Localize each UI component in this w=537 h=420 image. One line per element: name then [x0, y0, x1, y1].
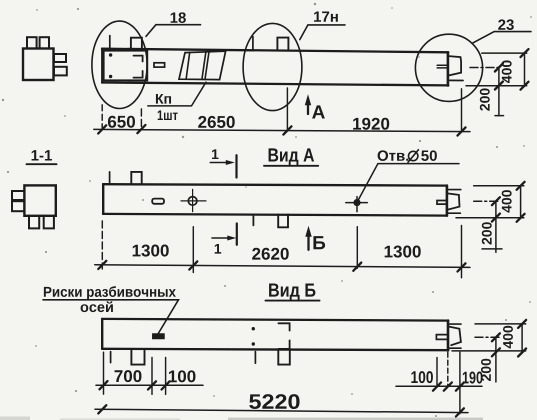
detail ellipse 18	[92, 21, 147, 108]
label 18	[146, 25, 201, 37]
tick below beam	[252, 216, 254, 225]
Otv label	[357, 164, 459, 202]
detail circle 23	[415, 34, 482, 101]
top dimension row: extensions	[102, 88, 461, 131]
dim text 2650	[198, 116, 235, 128]
detail ellipse 17n	[243, 23, 302, 110]
Vid A title	[269, 148, 315, 165]
dim 100 right	[411, 371, 433, 383]
tab above beam	[131, 172, 141, 184]
dim 700	[115, 370, 142, 382]
slot mark	[152, 199, 164, 204]
dim 1300 left	[133, 245, 169, 257]
section 1-1 view	[12, 185, 56, 228]
view arrow B	[307, 231, 309, 250]
main beam (plan view)	[102, 49, 448, 86]
label 17n	[300, 25, 345, 40]
bottom beam	[102, 319, 448, 350]
dim text 1920	[353, 118, 389, 130]
embedded plate left end	[104, 51, 148, 81]
dim 2620	[252, 248, 289, 260]
tab detail 17n	[277, 38, 288, 50]
middle right end connector	[437, 190, 461, 214]
dim 1300 right	[385, 246, 421, 258]
middle dim line	[95, 265, 470, 268]
tick above beam (mid)	[252, 37, 254, 50]
top dimension line	[94, 129, 470, 131]
tab detail 18	[131, 38, 142, 49]
bottom dim row 1 extensions	[104, 352, 460, 413]
section mark 1 (top)	[210, 149, 236, 177]
Riski label	[44, 286, 176, 300]
bottom right end connector	[436, 324, 461, 348]
right end connector detail	[437, 56, 463, 80]
label 23	[473, 32, 531, 43]
hole circle with cross	[181, 189, 206, 211]
ticks and tabs below beam	[110, 352, 112, 363]
riska mark	[153, 334, 164, 339]
dim 100 left	[169, 370, 196, 382]
side section symbol (top-left)	[23, 37, 67, 80]
Kp parallelogram mark	[179, 51, 226, 79]
Vid B title	[269, 284, 315, 301]
middle right vertical dims	[456, 186, 524, 253]
top right vertical dims	[466, 53, 527, 116]
dim ticks	[98, 125, 465, 136]
bottom scan smudge (decorative)	[0, 417, 483, 420]
bottom total dim 5220	[95, 409, 468, 412]
bottom right vertical dims	[452, 324, 526, 382]
plate brackets	[278, 323, 289, 330]
anchor tick above beam (left)	[109, 36, 111, 49]
tab below beam	[278, 214, 288, 227]
section mark 1 (bottom)	[212, 224, 237, 254]
dim text 650	[108, 116, 135, 128]
middle dim extensions	[102, 221, 461, 278]
tick above beam	[109, 172, 111, 184]
view arrow A	[307, 99, 309, 114]
Kp label	[148, 82, 206, 106]
1-1 label	[32, 150, 52, 160]
hole dot (Otv d50)	[346, 197, 368, 212]
dim 190	[463, 372, 483, 384]
small strap plate	[154, 63, 165, 67]
bottom dim row 1 lines	[96, 384, 203, 386]
plate dots	[252, 327, 255, 330]
middle beam	[103, 184, 447, 215]
